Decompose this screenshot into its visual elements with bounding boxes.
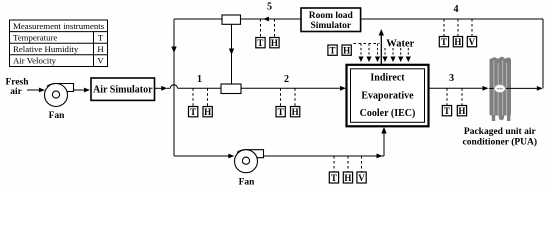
- wire: arrowhead on top duct (flow left): [263, 17, 269, 22]
- sensor T @node4: [439, 37, 448, 48]
- svg-text:Cooler (IEC): Cooler (IEC): [360, 108, 416, 119]
- sensor H @IEC secondary inlet: [343, 172, 352, 183]
- svg-text:Simulator: Simulator: [310, 21, 351, 31]
- svg-text:T: T: [98, 32, 104, 42]
- sensor H @node1: [203, 107, 212, 118]
- damper D1 on top duct: [222, 15, 241, 24]
- wire: fresh-air inlet arrow: [27, 88, 45, 93]
- svg-text:T: T: [257, 38, 263, 48]
- sensor V @IEC secondary inlet: [357, 172, 366, 183]
- svg-text:H: H: [271, 38, 278, 48]
- svg-text:Air Velocity: Air Velocity: [13, 56, 57, 66]
- wire: right vertical duct x=543: [542, 19, 544, 88]
- svg-text:H: H: [204, 107, 211, 117]
- wire: main supply duct (hop over left vertical, to IEC): [167, 85, 341, 89]
- node 2 dashed sensor leads: [281, 88, 296, 106]
- label: Fresh air: [5, 78, 29, 98]
- wire: IEC outlet to PUA: [429, 86, 489, 91]
- svg-text:Temperature: Temperature: [13, 32, 57, 42]
- svg-text:H: H: [97, 44, 104, 54]
- sensor H (water): [342, 45, 351, 56]
- svg-text:conditioner (PUA): conditioner (PUA): [463, 137, 538, 148]
- water supply pipe (solid, arrow up): [379, 29, 384, 65]
- box: Air Simulator: [91, 78, 155, 100]
- svg-text:Measurement instruments: Measurement instruments: [13, 21, 105, 31]
- sensor H @node5: [270, 38, 279, 49]
- wire: left vertical duct x=174: [171, 19, 176, 156]
- svg-text:Indirect: Indirect: [370, 73, 405, 84]
- wire: arrowhead into IEC: [340, 86, 346, 91]
- svg-text:H: H: [292, 107, 299, 117]
- svg-text:H: H: [458, 106, 465, 116]
- sensor T @node2: [276, 107, 285, 118]
- svg-text:Relative Humidity: Relative Humidity: [13, 44, 79, 54]
- node 1 dashed sensor leads: [193, 88, 208, 106]
- svg-text:H: H: [344, 173, 351, 183]
- table text: [13, 21, 105, 66]
- svg-text:H: H: [343, 46, 350, 56]
- svg-text:Room load: Room load: [309, 11, 354, 21]
- node 3 dashed sensor leads: [447, 88, 462, 105]
- svg-text:Water: Water: [386, 39, 414, 50]
- box: Room load Simulator: [301, 8, 361, 32]
- wire: bottom return duct: [174, 127, 387, 158]
- svg-text:4: 4: [454, 4, 459, 15]
- caption: Packaged unit air conditioner (PUA): [463, 127, 538, 148]
- sensor H @node3: [457, 106, 466, 117]
- PUA fan ellipse: [494, 84, 505, 92]
- PUA coil (gray serpentine block): [490, 57, 512, 121]
- svg-text:Fan: Fan: [49, 111, 66, 121]
- svg-text:T: T: [441, 37, 447, 47]
- svg-text:5: 5: [267, 2, 272, 13]
- svg-text:V: V: [97, 56, 104, 66]
- sensor H @node4: [453, 37, 462, 48]
- svg-text:H: H: [454, 37, 461, 47]
- water manifold dashed line: [354, 43, 380, 45]
- wire: bypass vertical duct x=231.5: [229, 24, 234, 84]
- wire: top return duct: [174, 18, 543, 20]
- svg-text:air: air: [10, 87, 22, 97]
- damper D2 on main duct: [221, 84, 241, 94]
- svg-text:Evaporative: Evaporative: [361, 91, 414, 102]
- sensor T (water): [328, 45, 337, 56]
- sensor T @IEC secondary inlet: [329, 172, 338, 183]
- svg-text:Fresh: Fresh: [5, 78, 29, 88]
- sensor T @node3: [442, 106, 451, 117]
- wire: fan1 outlet to Air Simulator: [74, 88, 91, 93]
- sensor T @node1: [189, 107, 198, 118]
- svg-text:T: T: [331, 173, 337, 183]
- table: measurement instruments: [10, 20, 108, 67]
- node 4 dashed sensor leads: [444, 19, 472, 37]
- node 5 dashed sensor leads: [261, 19, 275, 38]
- svg-text:T: T: [278, 107, 284, 117]
- svg-text:1: 1: [197, 74, 202, 85]
- svg-text:Fan: Fan: [239, 178, 256, 188]
- svg-text:Packaged unit air: Packaged unit air: [464, 127, 537, 137]
- bottom dashed sensor leads: [334, 156, 362, 172]
- svg-text:V: V: [469, 37, 476, 47]
- fan F2 (secondary air fan): [235, 150, 264, 173]
- svg-text:V: V: [358, 173, 365, 183]
- svg-text:2: 2: [284, 74, 289, 85]
- svg-text:3: 3: [449, 73, 454, 84]
- sensor V @node4: [467, 37, 476, 48]
- svg-text:T: T: [444, 106, 450, 116]
- sensor H @node2: [291, 107, 300, 118]
- fan F1 (fresh air fan): [45, 84, 74, 107]
- box: IEC (double border): [347, 65, 429, 127]
- svg-text:Air Simulator: Air Simulator: [93, 85, 153, 96]
- sensor T @node5: [256, 38, 265, 49]
- wire: air simulator outlet arrow: [155, 86, 168, 91]
- svg-text:T: T: [329, 46, 335, 56]
- water spray dashed arrows: [358, 44, 411, 63]
- svg-text:T: T: [190, 107, 196, 117]
- wire: PUA outlet to right corner: [489, 86, 543, 91]
